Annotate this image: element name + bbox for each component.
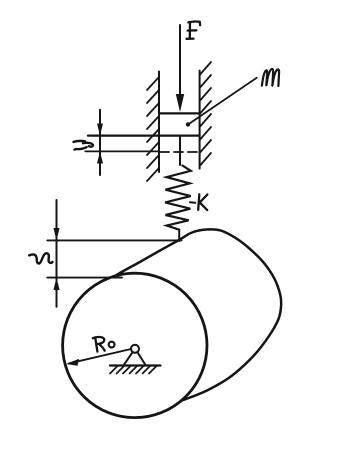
radius R0 leader with arrow (66, 349, 131, 366)
spring bottom stub (178, 230, 180, 241)
mass m block top (159, 112, 200, 114)
reference dashed line (unloaded position) (160, 151, 200, 153)
mass m block bottom (extends left for y dimension) (88, 135, 200, 137)
tick to K label (190, 201, 195, 203)
spring K (165, 166, 191, 230)
S dimension: bottom extension line (47, 277, 122, 279)
S dimension: top extension line (47, 239, 181, 241)
label y (handwritten, rotated) (74, 141, 93, 150)
label o subscript (109, 342, 115, 348)
label S (rotated) (29, 253, 52, 263)
pivot support left leg (124, 352, 133, 365)
leader line to label m (190, 78, 257, 124)
y dimension line (97, 110, 103, 175)
force F arrow (176, 25, 184, 112)
ground line (110, 364, 161, 366)
cylinder body (oblique outline) (88, 229, 281, 409)
dot on mass (186, 122, 190, 126)
ground hatching (110, 366, 157, 374)
label R (93, 337, 105, 352)
pivot point circle (131, 345, 139, 353)
label m (262, 69, 279, 86)
right guide wall (200, 62, 211, 169)
pivot support right leg (138, 352, 146, 365)
label F (187, 22, 201, 39)
S dimension line with arrows (53, 200, 59, 307)
piston rod (179, 136, 181, 165)
left guide wall (147, 72, 159, 182)
label K (198, 194, 207, 210)
cylinder front face circle R0 (63, 273, 207, 417)
solid extension of dashed line to the left (85, 150, 159, 152)
